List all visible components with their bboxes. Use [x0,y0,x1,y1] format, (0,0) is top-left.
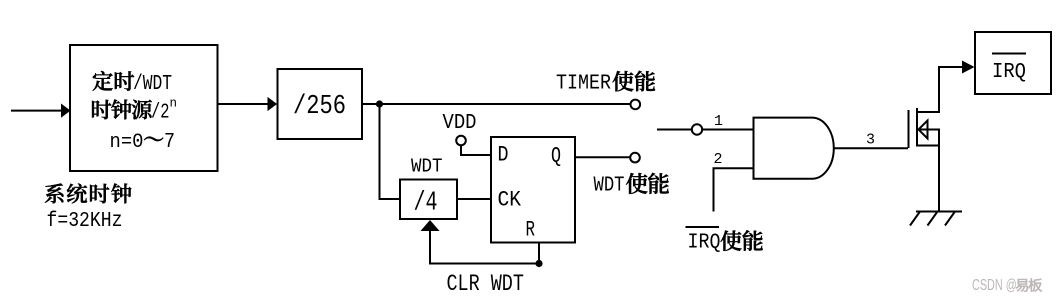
svg-text:Q: Q [551,143,561,168]
wire /4 to CK [457,198,491,200]
body arrow [919,121,928,139]
label 系统时钟 [45,183,64,203]
svg-text:CK: CK [498,189,522,213]
block: IRQ output box [975,32,1051,94]
svg-text:CSDN @: CSDN @ [972,276,1017,293]
wire VDD to D [461,145,491,155]
svg-text:2: 2 [714,151,723,168]
box text line2 时钟源/2^n [92,100,111,119]
box text line1 定时/WDT [93,71,113,91]
block: D flip-flop box [491,137,575,243]
svg-text:TIMER: TIMER [556,70,611,95]
transistor channel bar [916,108,918,147]
WDT enable terminal circle [630,153,640,163]
svg-text:/2: /2 [151,100,169,124]
wire AND input 2 [714,168,754,211]
source stub and wire down to ground [917,146,939,212]
svg-text:CLR WDT: CLR WDT [447,272,524,297]
AND input 1 stub [657,129,691,131]
svg-text:f=32KHz: f=32KHz [47,209,123,233]
wire junction down to /4 [380,104,401,199]
wire box1 to /256 [218,103,269,105]
block: /4 divider box [400,180,457,220]
svg-text:R: R [526,217,536,242]
svg-text:WDT: WDT [594,173,625,197]
svg-text:IRQ: IRQ [992,60,1026,84]
svg-text:WDT: WDT [411,156,442,178]
input wire [11,110,62,112]
svg-text:D: D [498,143,509,168]
block: /256 divider box [278,69,363,139]
VDD terminal circle [456,136,466,146]
svg-text:/4: /4 [414,188,438,219]
wire circle to AND input 1 [703,129,754,131]
ground symbol [916,211,962,213]
svg-text:IRQ: IRQ [688,229,721,254]
input 1 terminal circle [692,124,702,134]
svg-text:3: 3 [866,132,875,149]
svg-text:/WDT: /WDT [133,71,172,96]
svg-text:n: n [170,97,178,111]
block: timer/WDT clock source box [70,45,218,171]
svg-text:1: 1 [714,113,723,130]
wire AND output 3 to MOSFET gate [834,147,909,149]
junction dot at R [535,260,542,267]
TIMER enable terminal circle [631,100,641,110]
junction node [376,100,383,107]
svg-text:7: 7 [164,129,175,154]
svg-text:/256: /256 [293,91,346,122]
svg-text:n=0: n=0 [110,130,144,153]
wire Q output to WDT enable [575,156,630,158]
AND gate U1 [754,118,834,179]
wire /256 to TIMER enable [362,103,630,105]
svg-text:VDD: VDD [443,111,477,135]
drain stub and wire up to IRQ [917,67,962,112]
CLR WDT arrow into /4 [430,229,539,264]
transistor Q1 gate bar [908,110,910,148]
